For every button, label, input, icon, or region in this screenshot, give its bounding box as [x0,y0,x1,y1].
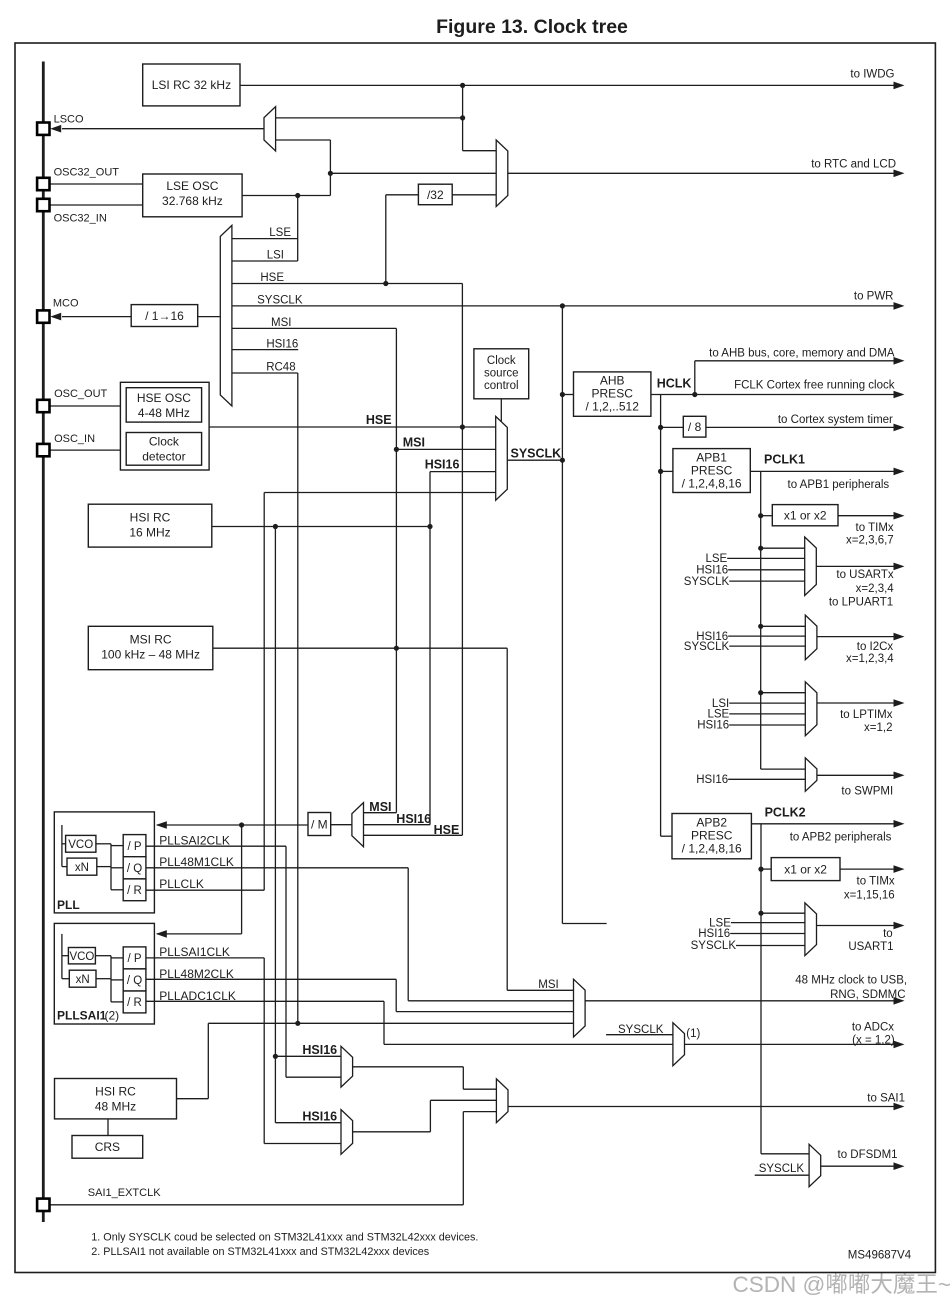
svg-text:OSC_OUT: OSC_OUT [54,388,107,400]
svg-text:(1): (1) [686,1028,700,1040]
svg-text:/ 1→16: / 1→16 [145,309,184,323]
svg-text:/ 1,2,4,8,16: / 1,2,4,8,16 [682,842,742,856]
svg-text:x=1,2,3,4: x=1,2,3,4 [846,653,894,665]
svg-text:LSI: LSI [267,250,284,262]
svg-text:LSE: LSE [269,227,291,239]
svg-text:HSI16: HSI16 [698,928,730,940]
svg-text:OSC32_IN: OSC32_IN [54,213,107,225]
svg-text:MCO: MCO [53,298,79,310]
svg-text:HSE OSC: HSE OSC [137,391,191,405]
svg-text:LSI RC 32 kHz: LSI RC 32 kHz [152,78,231,92]
svg-text:to RTC and LCD: to RTC and LCD [811,159,896,171]
svg-text:OSC_IN: OSC_IN [54,433,95,445]
svg-text:APB1: APB1 [696,451,727,465]
svg-text:HSI16: HSI16 [396,812,431,826]
svg-text:HSI16: HSI16 [697,720,729,732]
svg-text:/ 1,2,..512: / 1,2,..512 [586,400,640,414]
svg-text:/32: /32 [427,188,444,202]
svg-text:to APB1 peripherals: to APB1 peripherals [788,479,890,491]
svg-text:APB2: APB2 [696,816,727,830]
svg-text:PLLSAI1: PLLSAI1 [57,1009,107,1023]
svg-text:PLLCLK: PLLCLK [159,877,204,891]
svg-text:to USARTx: to USARTx [836,569,894,581]
svg-text:to LPUART1: to LPUART1 [829,597,893,609]
svg-text:SYSCLK: SYSCLK [691,940,737,952]
svg-text:48 MHz: 48 MHz [95,1100,136,1114]
svg-text:to I2Cx: to I2Cx [857,641,894,653]
svg-text:(2): (2) [105,1009,120,1023]
svg-text:SYSCLK: SYSCLK [759,1163,805,1175]
svg-text:RNG, SDMMC: RNG, SDMMC [830,989,905,1001]
svg-text:HSI16: HSI16 [266,338,298,350]
svg-text:SYSCLK: SYSCLK [618,1024,664,1036]
svg-text:USART1: USART1 [848,941,893,953]
svg-text:32.768 kHz: 32.768 kHz [162,194,223,208]
svg-text:xN: xN [76,974,90,986]
svg-text:MSI: MSI [538,979,558,991]
svg-text:Clock: Clock [487,355,516,367]
svg-text:PCLK2: PCLK2 [765,806,806,820]
svg-text:PRESC: PRESC [592,387,634,401]
svg-text:/ P: / P [127,953,141,965]
svg-text:OSC32_OUT: OSC32_OUT [54,167,120,179]
svg-text:/ Q: / Q [127,863,142,875]
svg-text:MS49687V4: MS49687V4 [848,1250,912,1262]
svg-text:2. PLLSAI1 not available on ST: 2. PLLSAI1 not available on STM32L41xxx … [91,1246,429,1258]
svg-text:to PWR: to PWR [854,291,894,303]
svg-text:16 MHz: 16 MHz [129,526,170,540]
svg-text:VCO: VCO [68,839,93,851]
svg-text:CSDN @嘟嘟大魔王~: CSDN @嘟嘟大魔王~ [733,1272,952,1297]
svg-text:to SWPMI: to SWPMI [841,786,893,798]
svg-text:HSI RC: HSI RC [95,1085,136,1099]
svg-text:Clock: Clock [149,435,180,449]
svg-text:PLLSAI2CLK: PLLSAI2CLK [159,834,230,848]
svg-text:HSE: HSE [366,413,392,427]
svg-text:x1 or x2: x1 or x2 [784,509,827,523]
svg-text:MSI: MSI [369,800,391,814]
svg-text:to TIMx: to TIMx [856,522,894,534]
svg-text:HSI16: HSI16 [696,774,728,786]
svg-text:/ M: / M [311,817,328,831]
svg-text:CRS: CRS [95,1140,120,1154]
svg-text:source: source [484,368,519,380]
svg-text:to: to [883,928,893,940]
svg-text:x=2,3,6,7: x=2,3,6,7 [846,534,894,546]
svg-text:detector: detector [142,450,185,464]
svg-text:PLL48M1CLK: PLL48M1CLK [159,855,234,869]
svg-text:/ R: / R [127,885,142,897]
svg-text:/ 1,2,4,8,16: / 1,2,4,8,16 [682,477,742,491]
svg-text:x=1,15,16: x=1,15,16 [844,890,895,902]
svg-text:MSI: MSI [271,317,291,329]
svg-text:PLLADC1CLK: PLLADC1CLK [159,989,236,1003]
svg-text:/ P: / P [127,841,141,853]
svg-text:LSE OSC: LSE OSC [166,179,218,193]
svg-text:100 kHz – 48 MHz: 100 kHz – 48 MHz [101,648,200,662]
svg-text:PLL: PLL [57,898,80,912]
svg-text:PLL48M2CLK: PLL48M2CLK [159,967,234,981]
svg-text:VCO: VCO [69,951,94,963]
svg-text:AHB: AHB [600,374,625,388]
svg-text:SYSCLK: SYSCLK [684,576,730,588]
svg-text:SYSCLK: SYSCLK [257,295,303,307]
svg-text:4-48 MHz: 4-48 MHz [138,406,190,420]
svg-text:48 MHz clock to USB,: 48 MHz clock to USB, [795,975,907,987]
svg-text:HSI16: HSI16 [302,1110,337,1124]
svg-text:to DFSDM1: to DFSDM1 [838,1149,898,1161]
svg-text:to IWDG: to IWDG [850,69,894,81]
svg-text:to SAI1: to SAI1 [867,1093,905,1105]
svg-text:HCLK: HCLK [657,377,692,391]
svg-text:to AHB bus, core, memory and D: to AHB bus, core, memory and DMA [709,348,895,360]
svg-text:HSI16: HSI16 [696,565,728,577]
svg-text:LSE: LSE [705,553,727,565]
svg-text:to LPTIMx: to LPTIMx [840,709,893,721]
svg-text:PRESC: PRESC [691,464,733,478]
svg-text:x=2,3,4: x=2,3,4 [856,583,895,595]
svg-text:MSI: MSI [403,435,425,449]
svg-text:Figure 13. Clock tree: Figure 13. Clock tree [436,16,628,38]
svg-text:LSCO: LSCO [54,114,84,126]
svg-text:x=1,2: x=1,2 [864,722,892,734]
svg-text:PRESC: PRESC [691,829,733,843]
svg-text:(x = 1,2): (x = 1,2) [852,1035,895,1047]
svg-text:/ Q: / Q [127,975,142,987]
svg-text:x1 or x2: x1 or x2 [784,863,827,877]
svg-text:/ R: / R [127,997,142,1009]
svg-text:to ADCx: to ADCx [852,1022,894,1034]
svg-text:1. Only SYSCLK coud be selecte: 1. Only SYSCLK coud be selected on STM32… [91,1232,478,1244]
svg-text:to APB2 peripherals: to APB2 peripherals [790,832,892,844]
svg-text:to TIMx: to TIMx [857,876,895,888]
svg-text:HSE: HSE [260,272,284,284]
svg-text:/ 8: / 8 [688,420,702,434]
svg-text:SYSCLK: SYSCLK [511,446,562,460]
svg-text:HSI RC: HSI RC [130,511,171,525]
svg-text:SAI1_EXTCLK: SAI1_EXTCLK [88,1187,161,1199]
svg-text:HSI16: HSI16 [425,458,460,472]
svg-text:PCLK1: PCLK1 [764,453,805,467]
svg-text:PLLSAI1CLK: PLLSAI1CLK [159,945,230,959]
svg-text:MSI RC: MSI RC [130,633,172,647]
svg-text:xN: xN [75,862,89,874]
svg-text:control: control [484,380,519,392]
svg-text:SYSCLK: SYSCLK [684,641,730,653]
svg-text:HSI16: HSI16 [302,1043,337,1057]
svg-text:FCLK Cortex free running clock: FCLK Cortex free running clock [734,380,895,392]
svg-text:RC48: RC48 [266,362,295,374]
svg-text:to Cortex system timer: to Cortex system timer [778,414,893,426]
svg-text:HSE: HSE [434,823,460,837]
